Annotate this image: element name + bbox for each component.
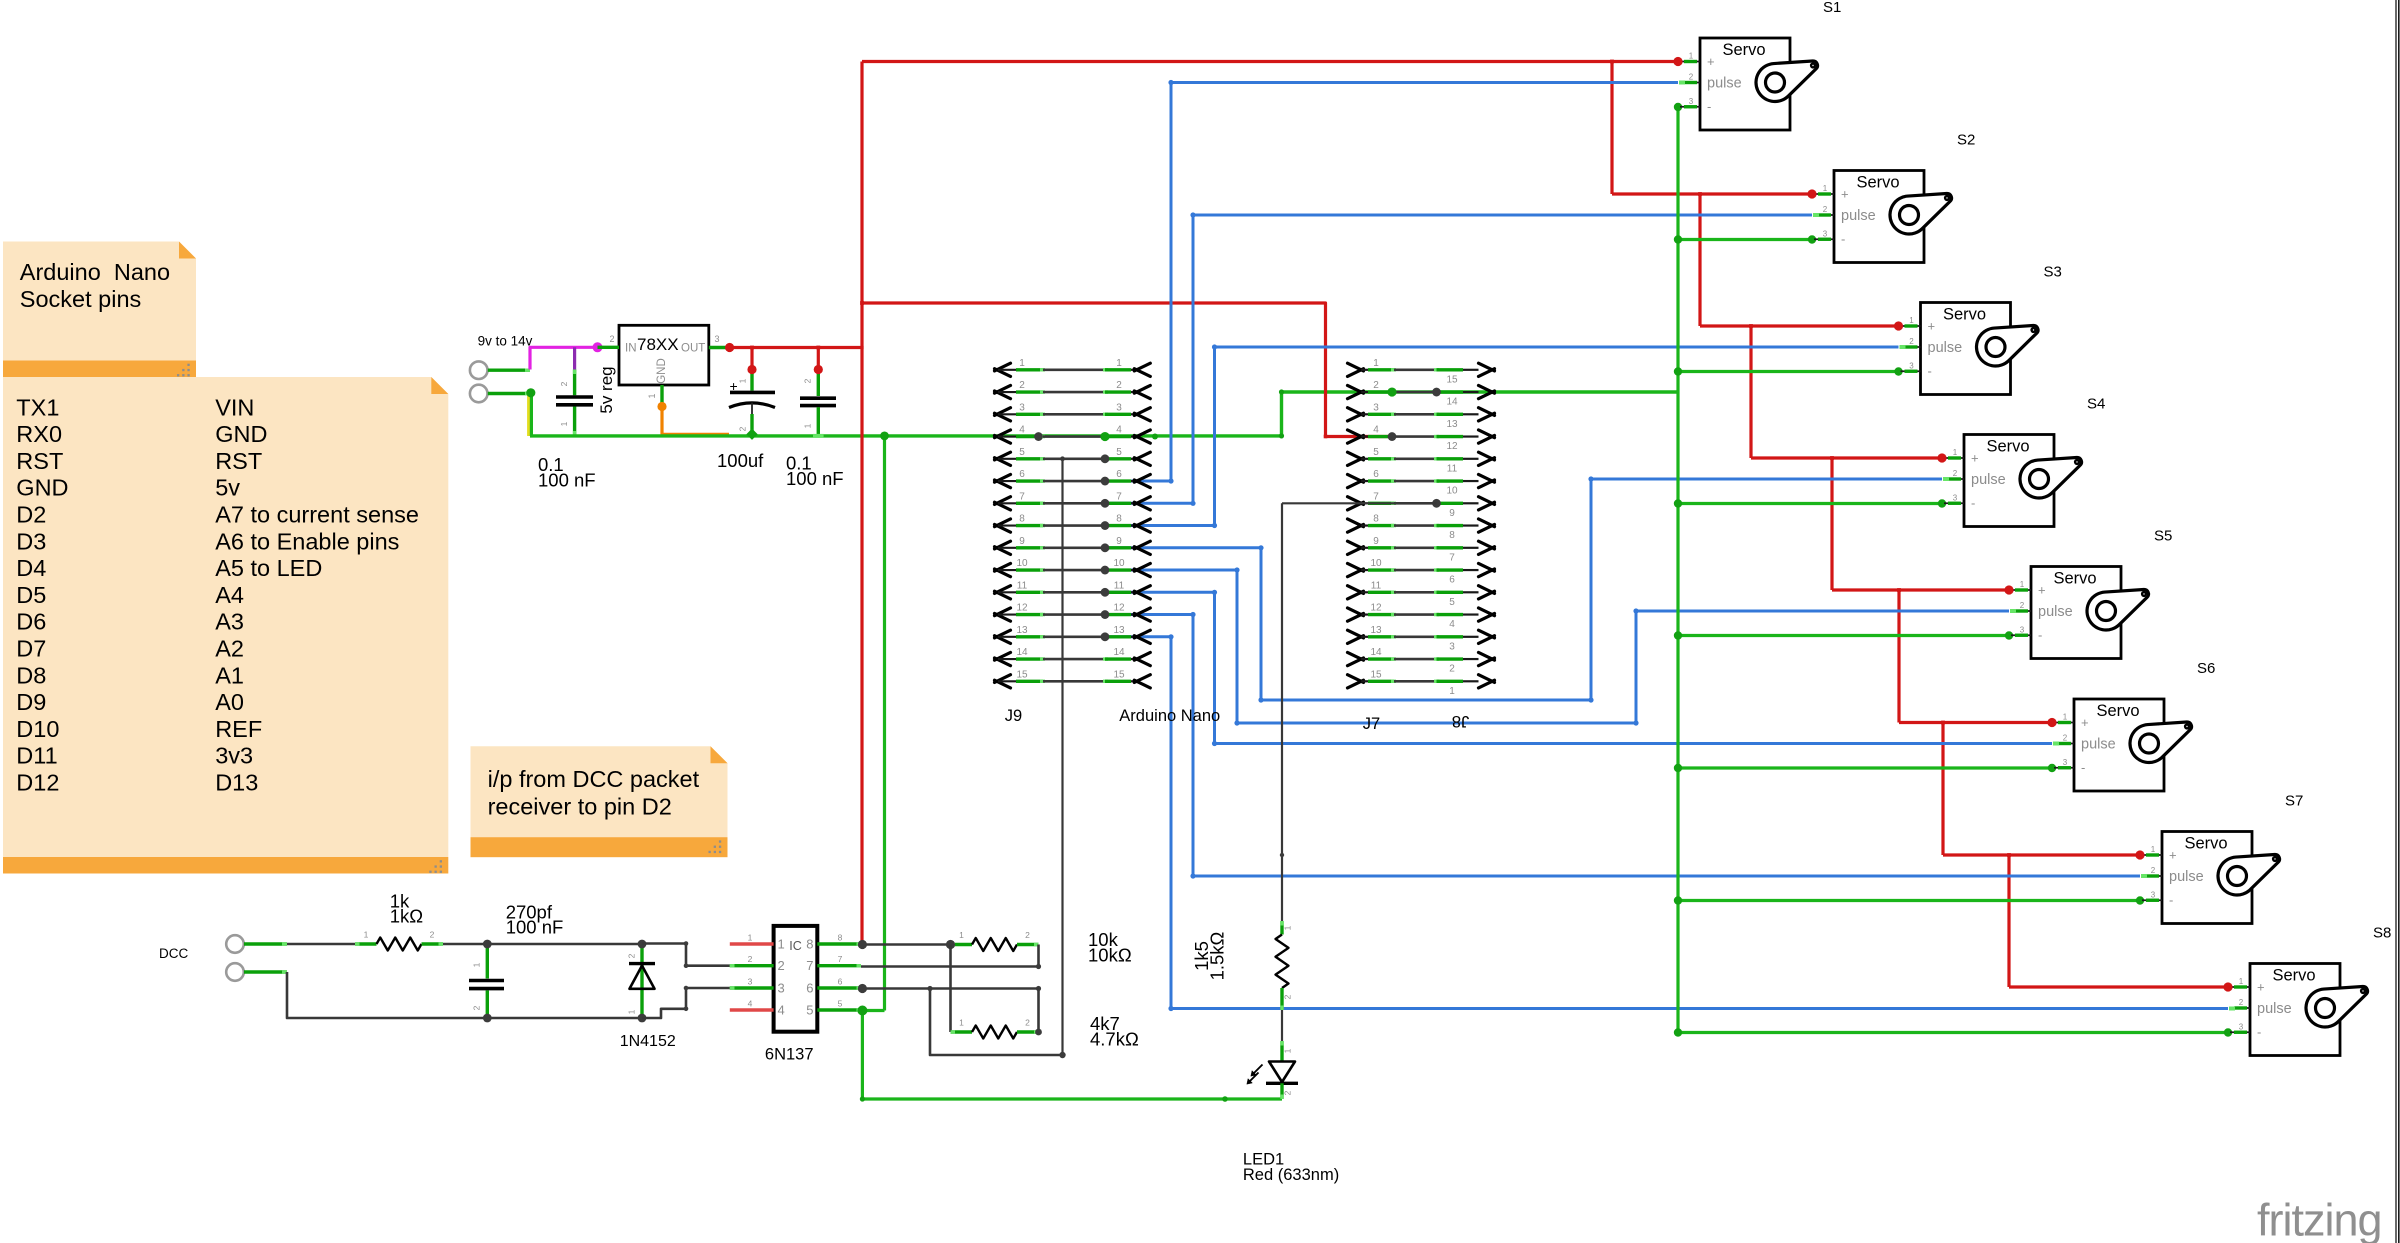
svg-text:IN: IN: [625, 343, 637, 355]
svg-text:7: 7: [1019, 491, 1025, 502]
svg-text:10: 10: [1016, 558, 1028, 569]
svg-text:RST: RST: [215, 448, 262, 474]
svg-text:Servo: Servo: [1943, 306, 1986, 324]
svg-text:1: 1: [647, 393, 657, 398]
svg-text:8: 8: [838, 933, 843, 943]
header junction dots: [1034, 387, 1441, 641]
svg-text:2: 2: [1025, 930, 1030, 940]
svg-text:3: 3: [1019, 402, 1025, 413]
svg-text:D2: D2: [16, 502, 46, 528]
label J7: [1363, 715, 1380, 733]
svg-text:2: 2: [1283, 1090, 1293, 1095]
red junction dots servo power: [1673, 57, 2232, 992]
svg-text:-: -: [2038, 627, 2042, 642]
svg-text:6N137: 6N137: [765, 1046, 814, 1064]
svg-text:RX0: RX0: [16, 421, 62, 447]
servo connector S5: [2011, 567, 2148, 659]
label R3 4k7: [1090, 1013, 1139, 1050]
svg-text:10kΩ: 10kΩ: [1088, 945, 1132, 966]
svg-text:3: 3: [1909, 361, 1914, 370]
svg-text:pulse: pulse: [2257, 1001, 2292, 1017]
label S2: [1957, 132, 1975, 149]
svg-text:11: 11: [1371, 580, 1382, 591]
svg-text:-: -: [2081, 760, 2085, 775]
svg-text:12: 12: [1446, 441, 1458, 452]
svg-text:Socket pins: Socket pins: [20, 286, 141, 312]
svg-text:1kΩ: 1kΩ: [390, 906, 424, 927]
junction dot C3 pin2: [814, 365, 823, 374]
fritzing watermark: [2257, 1195, 2382, 1243]
svg-text:2: 2: [1953, 469, 1958, 478]
svg-text:13: 13: [1113, 625, 1125, 636]
svg-text:Servo: Servo: [1986, 438, 2029, 456]
capacitor C1 0.1 100nF: [556, 370, 593, 436]
svg-text:3: 3: [1373, 402, 1379, 413]
svg-text:1: 1: [778, 937, 785, 952]
label C3 value: [786, 453, 844, 490]
svg-text:15: 15: [1016, 669, 1028, 680]
label S6: [2197, 660, 2215, 677]
wire R3 feed: [949, 945, 952, 1033]
svg-text:4.7kΩ: 4.7kΩ: [1090, 1029, 1139, 1050]
svg-text:1: 1: [738, 378, 748, 383]
label S4: [2087, 396, 2105, 413]
svg-text:1: 1: [364, 930, 369, 940]
svg-text:9: 9: [1116, 536, 1122, 547]
wire J7 pin7 to R4: [1280, 503, 1284, 921]
svg-text:+: +: [2038, 583, 2046, 598]
label S7: [2285, 793, 2303, 810]
wire 6N137 pin8 node: [862, 943, 950, 946]
svg-text:5v reg: 5v reg: [597, 366, 616, 413]
note N3 'i/p from DCC packet receiver to pin D2': [471, 746, 728, 857]
svg-text:-: -: [2169, 892, 2173, 907]
svg-text:pulse: pulse: [1971, 472, 2006, 488]
svg-text:-: -: [1928, 363, 1932, 378]
junction dots D1: [638, 940, 647, 1023]
svg-text:receiver to pin D2: receiver to pin D2: [488, 794, 672, 820]
svg-text:7: 7: [1373, 491, 1379, 502]
svg-text:Arduino Nano: Arduino Nano: [1119, 707, 1220, 725]
svg-text:3: 3: [2063, 758, 2068, 767]
wire red servo power chain: [1612, 62, 2228, 988]
wire orange regulator GND to bus: [657, 402, 729, 435]
svg-text:pulse: pulse: [2081, 737, 2116, 753]
svg-text:D11: D11: [16, 743, 57, 769]
svg-text:3: 3: [2239, 1022, 2244, 1031]
svg-text:100 nF: 100 nF: [506, 917, 564, 938]
svg-text:6: 6: [1116, 469, 1122, 480]
svg-text:5: 5: [1019, 447, 1025, 458]
svg-text:13: 13: [1016, 625, 1028, 636]
wire green supply return: [526, 388, 535, 436]
wire magenta supply to regulator IN: [530, 342, 603, 369]
label DCC: [159, 946, 188, 961]
svg-text:9v to 14v: 9v to 14v: [478, 334, 533, 349]
svg-text:14: 14: [1446, 397, 1458, 408]
svg-text:12: 12: [1113, 603, 1125, 614]
label U2 6N137: [765, 1046, 814, 1064]
svg-text:14: 14: [1016, 647, 1028, 658]
capacitor C4 270pf: [469, 944, 504, 1018]
svg-text:A7 to current sense: A7 to current sense: [215, 502, 419, 528]
svg-text:2: 2: [627, 953, 637, 958]
svg-text:TX1: TX1: [16, 394, 59, 420]
svg-text:D6: D6: [16, 609, 46, 635]
wire 6N137 pin6 node: [862, 986, 1062, 1055]
svg-text:S7: S7: [2285, 793, 2303, 810]
svg-text:GND: GND: [16, 475, 68, 501]
svg-text:4: 4: [1019, 425, 1025, 436]
svg-text:+: +: [1928, 319, 1936, 334]
svg-text:4: 4: [1373, 425, 1379, 436]
label LED1: [1243, 1151, 1339, 1184]
label S5: [2154, 528, 2172, 545]
svg-text:2: 2: [2239, 998, 2244, 1007]
svg-text:8: 8: [1019, 514, 1025, 525]
svg-text:Red (633nm): Red (633nm): [1243, 1166, 1339, 1184]
wire green servo ground bus: [1674, 103, 2232, 1037]
svg-text:2: 2: [778, 958, 785, 973]
svg-text:4: 4: [748, 999, 753, 1009]
wire red to J7 pin4: [862, 303, 1392, 438]
svg-text:pulse: pulse: [2038, 604, 2073, 620]
svg-text:2: 2: [559, 381, 569, 386]
svg-text:15: 15: [1113, 669, 1125, 680]
svg-text:A1: A1: [215, 662, 244, 688]
wire yellow supply return: [527, 394, 530, 437]
svg-text:+: +: [2257, 980, 2265, 995]
svg-text:D5: D5: [16, 582, 46, 608]
svg-text:2: 2: [610, 334, 615, 344]
svg-text:2: 2: [430, 930, 435, 940]
svg-text:1: 1: [1689, 52, 1694, 61]
servo connector S3: [1901, 303, 2038, 395]
servo connector S4: [1944, 435, 2081, 527]
svg-text:J7: J7: [1363, 715, 1380, 733]
note N1 'Arduino Nano Socket pins': [3, 242, 196, 378]
junction dot pin5: [857, 1006, 867, 1016]
svg-text:14: 14: [1113, 647, 1125, 658]
svg-text:1: 1: [748, 933, 753, 943]
svg-text:pulse: pulse: [1928, 340, 1963, 356]
wire green pin5 ground links: [860, 1011, 1282, 1102]
svg-text:1: 1: [959, 930, 964, 940]
diode D1 1N4152: [627, 944, 656, 1018]
svg-text:2: 2: [1373, 380, 1379, 391]
svg-text:78XX: 78XX: [637, 335, 679, 354]
svg-text:12: 12: [1370, 603, 1382, 614]
resistor R2 10k: [951, 930, 1039, 951]
wire DCC bottom rail: [287, 972, 642, 1018]
svg-text:D3: D3: [16, 528, 46, 554]
svg-text:2: 2: [748, 954, 753, 964]
svg-text:1: 1: [1283, 925, 1293, 930]
svg-text:3: 3: [748, 977, 753, 987]
svg-text:A5 to LED: A5 to LED: [215, 555, 322, 581]
svg-text:10: 10: [1370, 558, 1382, 569]
svg-text:1: 1: [1449, 686, 1455, 697]
resistor R4 1k5: [1276, 921, 1293, 1010]
svg-text:1: 1: [2151, 845, 2156, 854]
svg-text:4: 4: [1449, 619, 1455, 630]
svg-text:8: 8: [1449, 530, 1455, 541]
svg-text:D4: D4: [16, 555, 46, 581]
svg-text:12: 12: [1016, 603, 1028, 614]
svg-text:+: +: [1707, 54, 1715, 69]
label J9: [1005, 707, 1022, 725]
svg-text:100 nF: 100 nF: [786, 468, 844, 489]
svg-text:4: 4: [1116, 425, 1122, 436]
svg-text:7: 7: [838, 954, 843, 964]
servo connector S7: [2142, 832, 2279, 924]
svg-text:2: 2: [1025, 1018, 1030, 1028]
svg-text:1: 1: [1283, 1048, 1293, 1053]
svg-text:5: 5: [1116, 447, 1122, 458]
wire blue servo pulse lines D3-D10: [1105, 80, 2228, 1011]
wire C4 to D1 top: [487, 943, 642, 946]
svg-text:11: 11: [1447, 463, 1458, 474]
optocoupler U2 6N137: [730, 926, 861, 1032]
servo connector S6: [2054, 699, 2191, 791]
svg-text:9: 9: [1449, 508, 1455, 519]
label S1: [1823, 0, 1841, 16]
svg-text:-: -: [2257, 1024, 2261, 1039]
svg-text:pulse: pulse: [1707, 76, 1742, 92]
capacitor C2 100uf electrolytic: [729, 370, 775, 436]
svg-text:S1: S1: [1823, 0, 1841, 16]
connector J7 J8 15-pin headers: [1348, 358, 1495, 697]
wire red top feed S1: [862, 60, 1678, 64]
svg-text:Servo: Servo: [2184, 835, 2227, 853]
svg-text:1: 1: [627, 1009, 637, 1014]
servo connector S1: [1680, 38, 1817, 130]
svg-text:8: 8: [1373, 514, 1379, 525]
svg-text:3: 3: [715, 334, 720, 344]
svg-text:S6: S6: [2197, 660, 2215, 677]
svg-text:13: 13: [1370, 625, 1382, 636]
supply terminals 9v-14v: [470, 361, 530, 402]
svg-text:2: 2: [2020, 601, 2025, 610]
svg-text:3: 3: [1689, 97, 1694, 106]
wire R1 to C4: [443, 943, 487, 946]
svg-text:fritzing: fritzing: [2257, 1195, 2382, 1243]
label 9v to 14v: [478, 334, 533, 349]
wire green ground bus: [530, 389, 1678, 438]
svg-text:5v: 5v: [215, 475, 240, 501]
capacitor C3 0.1 100nF: [800, 370, 836, 436]
svg-text:A6 to Enable pins: A6 to Enable pins: [215, 528, 399, 554]
svg-text:S2: S2: [1957, 132, 1975, 149]
svg-text:1: 1: [1953, 448, 1958, 457]
wire DCC top to R1: [287, 943, 355, 946]
svg-text:D13: D13: [215, 770, 258, 796]
label C2 value: [717, 450, 764, 471]
wire red regulator OUT rail: [730, 346, 864, 370]
junction dot R2 pin1: [946, 940, 955, 949]
svg-text:-: -: [1841, 231, 1845, 246]
svg-text:2: 2: [2151, 866, 2156, 875]
svg-text:2: 2: [1909, 337, 1914, 346]
svg-text:3: 3: [1449, 641, 1455, 652]
svg-text:3: 3: [778, 981, 785, 996]
svg-text:+: +: [2081, 715, 2089, 730]
svg-text:J9: J9: [1005, 707, 1022, 725]
svg-text:3: 3: [1823, 229, 1828, 238]
svg-text:5: 5: [1449, 597, 1455, 608]
svg-text:100 nF: 100 nF: [538, 470, 596, 491]
svg-text:100uf: 100uf: [717, 450, 764, 471]
svg-text:1: 1: [959, 1018, 964, 1028]
svg-text:6: 6: [838, 977, 843, 987]
svg-text:A2: A2: [215, 636, 244, 662]
label C1 value: [538, 454, 596, 491]
svg-text:Servo: Servo: [2053, 570, 2096, 588]
junction dot OUT: [725, 343, 734, 352]
terminals DCC input: [226, 935, 287, 981]
svg-text:Arduino Nano: Arduino Nano: [20, 259, 170, 285]
svg-text:4: 4: [778, 1003, 785, 1018]
svg-text:D7: D7: [16, 636, 46, 662]
svg-text:5: 5: [806, 1003, 813, 1018]
wire D2 sense to J9 pin5: [1059, 456, 1065, 1058]
svg-text:1: 1: [559, 421, 569, 426]
pulse terminal ticks: [1679, 83, 2235, 1009]
svg-text:2: 2: [738, 426, 748, 431]
svg-text:3: 3: [1953, 493, 1958, 502]
svg-text:Servo: Servo: [1722, 41, 1765, 59]
wire D1 to 6N137 pin2: [642, 941, 730, 968]
svg-text:3v3: 3v3: [215, 743, 253, 769]
label C4 270pf: [506, 902, 564, 938]
svg-text:14: 14: [1370, 647, 1382, 658]
svg-text:6: 6: [806, 981, 813, 996]
svg-text:D8: D8: [16, 662, 46, 688]
svg-text:-: -: [1971, 495, 1975, 510]
svg-text:D10: D10: [16, 716, 59, 742]
svg-text:-: -: [1707, 99, 1711, 114]
svg-text:1: 1: [2063, 713, 2068, 722]
svg-text:1.5kΩ: 1.5kΩ: [1207, 931, 1228, 980]
svg-text:7: 7: [1116, 491, 1122, 502]
junction dot pin6: [858, 984, 867, 993]
svg-text:OUT: OUT: [681, 343, 705, 355]
svg-text:2: 2: [1449, 664, 1455, 675]
svg-text:7: 7: [1449, 552, 1455, 563]
svg-text:1: 1: [1019, 358, 1025, 369]
svg-text:15: 15: [1370, 669, 1382, 680]
svg-text:i/p from DCC packet: i/p from DCC packet: [488, 766, 700, 792]
note N2 Arduino Nano pin map: [3, 377, 448, 874]
svg-text:10: 10: [1446, 486, 1458, 497]
svg-text:A3: A3: [215, 609, 244, 635]
label J8 rotated: [1452, 712, 1469, 730]
svg-text:1: 1: [472, 962, 482, 967]
svg-text:A0: A0: [215, 689, 244, 715]
junction dots C4: [483, 940, 492, 1023]
regulator U1 78XX: [597, 325, 730, 413]
svg-text:+: +: [1841, 187, 1849, 202]
svg-text:Servo: Servo: [1856, 174, 1899, 192]
svg-text:1: 1: [1909, 316, 1914, 325]
svg-text:8: 8: [1116, 514, 1122, 525]
servo connector S2: [1814, 171, 1951, 263]
svg-text:3: 3: [1116, 402, 1122, 413]
svg-text:D9: D9: [16, 689, 46, 715]
wire R3 pin2 up: [1035, 986, 1042, 1036]
svg-text:6: 6: [1449, 575, 1455, 586]
svg-text:pulse: pulse: [1841, 208, 1876, 224]
svg-text:IC: IC: [789, 939, 802, 953]
svg-text:1: 1: [1373, 358, 1379, 369]
svg-text:6: 6: [1019, 469, 1025, 480]
wire green bus to 6N137 pin5: [880, 432, 889, 1011]
svg-text:2: 2: [472, 1005, 482, 1010]
svg-text:7: 7: [806, 958, 813, 973]
svg-text:6: 6: [1373, 469, 1379, 480]
svg-text:J8: J8: [1452, 712, 1469, 730]
svg-text:VIN: VIN: [215, 394, 254, 420]
svg-text:D12: D12: [16, 770, 59, 796]
svg-text:GND: GND: [656, 358, 668, 384]
svg-text:9: 9: [1373, 536, 1379, 547]
wire red main riser: [860, 62, 864, 945]
svg-text:S3: S3: [2044, 264, 2062, 281]
svg-text:+: +: [2169, 848, 2177, 863]
svg-text:1: 1: [2020, 580, 2025, 589]
svg-text:10: 10: [1113, 558, 1125, 569]
LED LED1: [1247, 1041, 1298, 1099]
junction dot bus C2: [746, 429, 757, 440]
svg-text:1: 1: [1823, 184, 1828, 193]
svg-text:2: 2: [2063, 734, 2068, 743]
svg-text:GND: GND: [215, 421, 267, 447]
svg-text:Servo: Servo: [2272, 967, 2315, 985]
svg-text:13: 13: [1446, 419, 1458, 430]
svg-text:S5: S5: [2154, 528, 2172, 545]
label S8: [2373, 925, 2391, 942]
svg-text:5: 5: [1373, 447, 1379, 458]
svg-text:5: 5: [838, 999, 843, 1009]
wire J7 pin7 horizontal: [1282, 502, 1437, 504]
wire D1 to 6N137 pin3: [642, 986, 730, 1018]
svg-text:RST: RST: [16, 448, 63, 474]
svg-text:1: 1: [803, 423, 813, 428]
svg-text:Servo: Servo: [2096, 702, 2139, 720]
svg-text:pulse: pulse: [2169, 869, 2204, 885]
label Arduino Nano: [1119, 707, 1220, 725]
svg-text:REF: REF: [215, 716, 262, 742]
resistor R1 1k: [355, 930, 443, 951]
svg-text:15: 15: [1446, 374, 1458, 385]
junction tick bus C3: [813, 434, 824, 438]
svg-text:2: 2: [803, 378, 813, 383]
svg-text:1N4152: 1N4152: [620, 1033, 676, 1050]
svg-text:+: +: [1971, 451, 1979, 466]
connector J9 15-pin header: [995, 358, 1151, 688]
wire violet tap to C1: [573, 347, 576, 369]
svg-text:2: 2: [1689, 73, 1694, 82]
svg-text:2: 2: [1019, 380, 1025, 391]
canvas right border: [2396, 0, 2399, 1243]
svg-text:1: 1: [1116, 358, 1122, 369]
svg-text:11: 11: [1114, 580, 1125, 591]
servo connector S8: [2230, 964, 2367, 1056]
svg-text:3: 3: [2020, 625, 2025, 634]
svg-text:9: 9: [1019, 536, 1025, 547]
svg-text:S4: S4: [2087, 396, 2105, 413]
svg-text:2: 2: [1116, 380, 1122, 391]
